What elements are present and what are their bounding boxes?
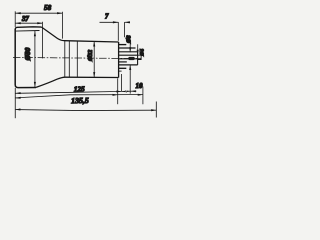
dimension 58 right extension <box>61 12 63 39</box>
key dark blob <box>128 57 134 60</box>
neck ring 3 <box>76 41 78 77</box>
bulb inner top line <box>16 30 40 33</box>
svg-text:Ø4: Ø4 <box>140 49 146 57</box>
base thread bars long <box>119 47 136 49</box>
centerline <box>13 57 141 58</box>
dimension neck D32 line <box>93 41 95 77</box>
taper top edge <box>42 27 65 41</box>
neck top edge <box>65 41 119 42</box>
svg-text:Ø8: Ø8 <box>125 35 132 44</box>
ext 125 right <box>121 74 123 91</box>
bulb outline (left body) <box>15 27 41 30</box>
svg-text:10: 10 <box>136 82 144 90</box>
base thread bars short <box>119 44 126 46</box>
dimension 37 line <box>15 22 42 24</box>
left extension continued to bottom <box>14 88 16 118</box>
ext 135,5 right <box>142 87 144 105</box>
key end vertical <box>137 52 139 65</box>
ext 135,5 mid (base face down) <box>117 78 119 104</box>
dimension key D8 vertical <box>129 44 131 53</box>
neck ring 2 <box>68 41 70 78</box>
svg-text:125: 125 <box>74 85 85 93</box>
key tip <box>138 55 142 59</box>
dimension 10 segment <box>122 90 137 92</box>
svg-text:7: 7 <box>105 14 109 21</box>
svg-text:37: 37 <box>21 16 29 23</box>
dimension D80 line <box>34 31 36 87</box>
dimension 58 left extension (bulb edge up) <box>14 11 16 27</box>
taper bottom edge <box>36 77 65 87</box>
neck ring 1 <box>64 41 66 77</box>
ext 10 (key) <box>130 65 132 94</box>
dimension 7 right stub <box>125 21 130 23</box>
svg-text:Ø80: Ø80 <box>23 47 32 61</box>
dimension 7 line left part <box>100 21 119 23</box>
svg-text:135,5: 135,5 <box>71 96 89 105</box>
dimension 7 extensions <box>117 22 119 41</box>
dimension key tip vertical <box>137 44 139 55</box>
dimension 37 right extension (continues to centerline) <box>41 22 43 59</box>
svg-text:Ø32: Ø32 <box>87 49 94 62</box>
dimension row-3 line <box>16 110 156 111</box>
dimension 58 line <box>15 12 62 14</box>
svg-text:58: 58 <box>44 4 52 12</box>
dimension row-3 right extension <box>155 102 157 118</box>
dimension 125 line <box>15 91 121 93</box>
neck bottom edge <box>65 76 119 78</box>
dimension 135,5 line <box>15 95 142 98</box>
base face <box>118 42 120 78</box>
